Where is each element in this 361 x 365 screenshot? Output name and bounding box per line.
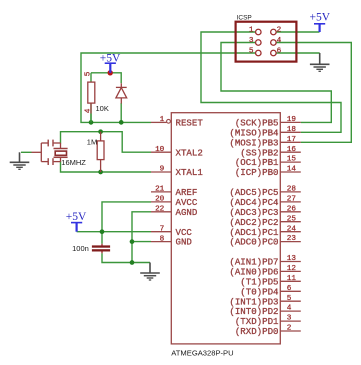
+5V symbol P1 (reset) (100, 52, 121, 73)
crystal plates (54, 148, 68, 150)
svg-text:1: 1 (249, 26, 254, 34)
svg-text:20: 20 (155, 196, 165, 204)
pin 2 (RXD)PD0 (235, 325, 301, 338)
bottom load cap (41, 161, 47, 163)
pin 8 GND stub (151, 235, 192, 247)
wire net AVCC (102, 202, 151, 232)
svg-text:ICSP: ICSP (237, 15, 252, 22)
svg-text:22: 22 (155, 206, 165, 214)
svg-text:4: 4 (84, 108, 92, 113)
junction dot diode bottom (119, 120, 124, 125)
svg-text:ATMEGA328P-PU: ATMEGA328P-PU (171, 348, 233, 357)
svg-text:10K: 10K (96, 104, 109, 113)
junction dot 1M top (98, 129, 103, 134)
pin 24 (ADC1)PC1 (229, 225, 300, 238)
svg-text:7: 7 (160, 225, 165, 233)
pin 6 (T0)PD4 (240, 285, 301, 298)
junction dot ground bottom (130, 260, 135, 265)
wire net XTAL1: crystal bottom to IC pin9 (61, 161, 152, 172)
svg-text:2: 2 (277, 26, 282, 34)
wire ICSP pin1 MISO to IC pin18 (201, 32, 341, 132)
pin 12 (AIN0)PD6 (229, 265, 300, 278)
wire crystal ground stub (21, 151, 32, 153)
capacitor C1 100n (72, 244, 110, 254)
left common line (32, 151, 42, 153)
pad 3 (256, 40, 262, 46)
svg-text:12: 12 (287, 265, 297, 273)
junction dot AGND/GND (130, 239, 135, 244)
pin 4 (INT0)PD2 (229, 305, 300, 318)
wire ICSP pin4 MOSI to IC pin17 (276, 43, 351, 143)
svg-text:13: 13 (287, 255, 297, 263)
svg-text:9: 9 (160, 166, 165, 174)
svg-text:10: 10 (155, 146, 165, 154)
svg-text:6: 6 (277, 47, 282, 55)
svg-text:6: 6 (287, 285, 292, 293)
svg-text:3: 3 (287, 315, 292, 323)
pin 14 (ICP)PB0 (235, 166, 301, 179)
pin 21 AREF stub (151, 186, 197, 198)
svg-text:16: 16 (287, 146, 297, 154)
wire cap top stub (101, 232, 103, 244)
pin 25 (ADC2)PC2 (229, 215, 300, 228)
pin 19 (SCK)PB5 (235, 116, 301, 129)
junction dot +5V reset (red) (108, 70, 113, 75)
svg-text:GND: GND (176, 237, 192, 248)
wire net GND row (132, 241, 151, 243)
svg-text:5: 5 (84, 71, 92, 76)
wire ICSP pin2 to +5V (276, 31, 319, 33)
crystal body (55, 151, 66, 155)
pin 22 AGND stub (151, 206, 197, 218)
pin 28 (ADC5)PC5 (229, 186, 300, 199)
pad 1 (256, 29, 262, 35)
pin 15 (OC1)PB1 (235, 156, 301, 169)
ICSP header connector (236, 15, 297, 62)
+5V symbol P2 (ICSP) (310, 12, 331, 32)
svg-text:(RXD)PD0: (RXD)PD0 (235, 326, 279, 337)
ground G3 (100n cap) (140, 263, 160, 281)
pin 11 (T1)PD5 (240, 275, 301, 288)
svg-text:1: 1 (160, 116, 165, 124)
wire net VCC row (77, 231, 151, 233)
svg-text:11: 11 (287, 275, 297, 283)
wire net +5V top of reset: resistor top to diode top (91, 73, 121, 123)
svg-text:XTAL1: XTAL1 (176, 167, 204, 178)
pin 1 RESET stub with bubble (151, 116, 203, 128)
svg-text:+5V: +5V (310, 12, 331, 24)
ground G1 (crystal) (10, 152, 30, 169)
svg-text:26: 26 (287, 205, 297, 213)
wire net RESET: ICSP pin5 to reset circuit to IC pin1 (81, 53, 256, 122)
junction dot VCC/cap (100, 229, 105, 234)
svg-text:19: 19 (287, 116, 297, 124)
pin 9 XTAL1 stub (151, 166, 203, 179)
svg-text:5: 5 (287, 295, 292, 303)
pin 20 AVCC stub (151, 196, 198, 208)
svg-text:(ADC0)PC0: (ADC0)PC0 (229, 237, 278, 248)
svg-text:21: 21 (155, 186, 165, 194)
svg-text:AGND: AGND (176, 207, 198, 218)
svg-text:(ICP)PB0: (ICP)PB0 (235, 167, 279, 178)
svg-text:18: 18 (287, 126, 297, 134)
junction dot resistor bottom (89, 120, 94, 125)
svg-text:XTAL2: XTAL2 (176, 147, 203, 158)
pad 6 (271, 50, 277, 56)
top load cap (41, 142, 47, 144)
pad 4 (271, 40, 277, 46)
svg-text:8: 8 (160, 235, 165, 243)
pin 10 XTAL2 stub (151, 146, 203, 158)
wire ICSP pin6 to ground (276, 52, 320, 54)
resistor R2 1M (87, 132, 104, 172)
pin 16 (SS)PB2 (240, 146, 301, 159)
ground G2 (ICSP) (310, 53, 330, 71)
pin 18 (MISO)PB4 (229, 126, 300, 139)
svg-text:14: 14 (287, 166, 297, 174)
svg-text:100n: 100n (72, 244, 89, 253)
junction dot 1M bottom (98, 170, 103, 175)
svg-text:23: 23 (287, 235, 297, 243)
pin 7 VCC stub (151, 225, 192, 237)
pin 3 (TXD)PD1 (235, 315, 301, 328)
svg-text:25: 25 (287, 215, 297, 223)
svg-text:RESET: RESET (176, 118, 204, 129)
resonator Q1 16MHZ with load caps (32, 140, 68, 165)
pad 5 (256, 50, 262, 56)
+5V symbol P3 (VCC) (66, 211, 87, 232)
svg-text:24: 24 (287, 225, 297, 233)
svg-text:15: 15 (287, 156, 297, 164)
svg-text:4: 4 (287, 305, 292, 313)
pin 23 (ADC0)PC0 (229, 235, 300, 248)
svg-text:27: 27 (287, 196, 297, 204)
svg-text:+5V: +5V (66, 211, 87, 223)
pin 13 (AIN1)PD7 (229, 255, 300, 268)
resistor R1 10K (84, 71, 109, 122)
svg-text:1M: 1M (87, 138, 97, 147)
pad 2 (271, 29, 277, 35)
pin 26 (ADC3)PC3 (229, 205, 300, 218)
svg-text:5: 5 (249, 47, 254, 55)
wire cap bottom to ground (102, 253, 150, 262)
svg-text:16MHZ: 16MHZ (61, 158, 86, 167)
pin 27 (ADC4)PC4 (229, 196, 300, 209)
diode D1 (116, 83, 127, 103)
svg-text:4: 4 (277, 37, 282, 45)
wire net AGND (132, 212, 151, 263)
svg-text:28: 28 (287, 186, 297, 194)
wire ICSP pin3 SCK to IC pin19 (221, 43, 331, 123)
IC U1 ATMEGA328P-PU body (171, 113, 280, 344)
svg-text:3: 3 (249, 37, 254, 45)
pin 5 (INT1)PD3 (229, 295, 300, 308)
wire net XTAL2: crystal top to IC pin10 (61, 132, 152, 153)
svg-text:2: 2 (287, 325, 292, 333)
pin 17 (MOSI)PB3 (229, 136, 300, 149)
svg-text:17: 17 (287, 136, 297, 144)
